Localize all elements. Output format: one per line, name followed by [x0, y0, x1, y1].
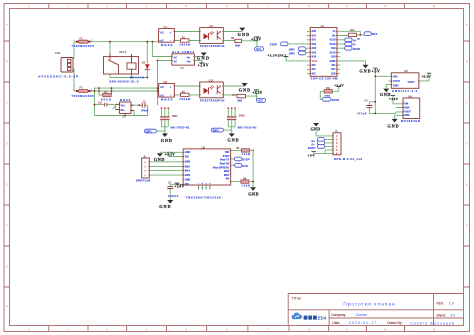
resistor R1 150k: [179, 35, 191, 46]
switch SW1: [160, 107, 190, 133]
wire D2 to U11: [174, 86, 199, 95]
svg-text:1000uF: 1000uF: [168, 195, 179, 198]
net flag RTX at U5: [231, 164, 248, 168]
svg-text:RTX: RTX: [242, 164, 248, 168]
svg-text:D: D: [6, 142, 8, 146]
svg-text:VIN: VIN: [393, 75, 397, 79]
svg-text:Сигма: Сигма: [356, 313, 368, 317]
wire bottom rail: [94, 105, 147, 115]
svg-text:VIO: VIO: [185, 155, 189, 158]
svg-text:VOUT: VOUT: [408, 80, 416, 84]
switch SW2: [227, 107, 257, 133]
svg-text:GND: GND: [330, 59, 336, 63]
svg-text:B: B: [6, 60, 8, 64]
net flag DIP1 at SW1: [144, 127, 165, 134]
svg-text:F1: F1: [80, 36, 84, 40]
svg-text:2: 2: [91, 40, 92, 42]
svg-text:MK-707/D-N1: MK-707/D-N1: [171, 126, 191, 130]
fuse F1: [71, 36, 94, 48]
svg-text:D2: D2: [164, 80, 168, 84]
svg-text:150kΩ: 150kΩ: [179, 43, 191, 47]
resistor R4: [233, 94, 246, 102]
net flag DIP2 at SW2: [211, 128, 231, 132]
svg-text:DIP1: DIP1: [146, 129, 152, 133]
svg-text:DIR: DIR: [225, 151, 230, 154]
svg-text:VOUT: VOUT: [393, 79, 401, 83]
svg-text:B: B: [466, 60, 468, 64]
svg-text:+3.3V: +3.3V: [334, 83, 344, 87]
power module U7 HLK-20M24: [172, 50, 195, 70]
svg-text:MS2: MS2: [224, 170, 230, 173]
border ticks bottom: [49, 326, 405, 332]
svg-text:PC817X2NIP1B: PC817X2NIP1B: [200, 98, 225, 102]
svg-text:M2A: M2A: [185, 166, 190, 169]
relay RLY1: [104, 50, 139, 83]
capacitor C11: [98, 101, 107, 106]
svg-text:Company:: Company:: [331, 313, 346, 317]
net flag D- at J1: [312, 141, 328, 146]
svg-text:T500MA250V: T500MA250V: [71, 94, 94, 98]
power +5V rail: [372, 68, 380, 113]
net flag D- at A1: [340, 42, 356, 46]
power +3.3V at U11: [223, 90, 262, 100]
svg-text:STEP: STEP: [242, 157, 249, 161]
svg-text:C11: C11: [98, 101, 103, 104]
svg-text:10kΩ: 10kΩ: [242, 153, 251, 156]
svg-text:+Vo: +Vo: [186, 60, 191, 63]
svg-text:IO19: IO19: [330, 42, 336, 46]
power +3.3V at U4: [223, 37, 261, 49]
svg-text:GND: GND: [185, 178, 191, 181]
net flag AC1: [255, 47, 264, 51]
svg-text:U11: U11: [209, 78, 214, 82]
svg-text:D−: D−: [312, 142, 316, 146]
stepper driver U5 TMC2209: [183, 145, 231, 199]
border ticks left: [4, 41, 10, 287]
wire R7 taps: [99, 88, 112, 95]
svg-text:s: s: [209, 183, 210, 185]
svg-text:TMC2209/TMC2226: TMC2209/TMC2226: [186, 196, 221, 200]
svg-text:NC: NC: [312, 72, 316, 76]
svg-text:VOUT: VOUT: [404, 112, 411, 114]
junction dots left cluster: [94, 41, 159, 106]
svg-text:IO5: IO5: [312, 55, 317, 59]
resistor R3: [231, 37, 242, 47]
ground GND at U6: [387, 115, 398, 128]
svg-text:CN1: CN1: [55, 51, 61, 55]
resistor R11 boot pullup: [320, 83, 344, 99]
svg-text:GND: GND: [393, 83, 399, 87]
net flag STEP at A1: [270, 42, 307, 47]
svg-text:GND: GND: [239, 87, 251, 92]
svg-text:1: 1: [74, 89, 75, 91]
connector J2 HDR-F-2.54: [136, 155, 151, 182]
svg-text:SW1: SW1: [172, 114, 179, 118]
power +5V at J1: [307, 150, 328, 158]
svg-text:GND: GND: [404, 115, 409, 117]
optocoupler U4 PC817X2NIP1B: [200, 24, 225, 48]
svg-text:1/1: 1/1: [450, 314, 455, 318]
svg-text:ESP-C3-12F-4M: ESP-C3-12F-4M: [311, 76, 338, 80]
svg-text:1N4148: 1N4148: [130, 76, 145, 80]
wire D5 to C2: [131, 104, 148, 106]
svg-text:A: A: [466, 23, 468, 27]
bridge rectifier D2 MB6S: [159, 80, 175, 102]
svg-text:GND: GND: [197, 56, 209, 61]
svg-text:5kΩ: 5kΩ: [235, 44, 240, 47]
svg-text:GND: GND: [248, 192, 258, 197]
svg-text:D−: D−: [353, 43, 357, 47]
power +24V at U5 VM: [174, 183, 184, 189]
resistor R6: [231, 147, 253, 187]
svg-text:VM: VM: [185, 183, 189, 186]
svg-text:SRD-05VDC-SL-C: SRD-05VDC-SL-C: [109, 79, 138, 83]
svg-text:+5V: +5V: [307, 153, 315, 157]
net flag BOOT at A1: [340, 46, 361, 50]
svg-text:+5V: +5V: [372, 70, 380, 74]
svg-text:STEP: STEP: [270, 43, 277, 47]
svg-text:AC−: AC−: [121, 109, 126, 112]
power +24V at U7: [194, 61, 208, 68]
diode D3 1N4148: [130, 60, 150, 79]
svg-text:10kΩ: 10kΩ: [242, 184, 251, 187]
svg-text:EDA: EDA: [318, 316, 327, 321]
ground GND at U4: [223, 28, 249, 37]
svg-text:+3.3V: +3.3V: [165, 152, 176, 156]
svg-text:AC2: AC2: [258, 100, 263, 103]
svg-text:AC: AC: [160, 31, 164, 34]
svg-text:1.0: 1.0: [449, 301, 454, 305]
svg-text:Real TX: Real TX: [220, 159, 230, 162]
regulator U3 AMS1117-3.3: [375, 69, 419, 93]
svg-text:IO0: IO0: [312, 29, 317, 33]
svg-text:U3: U3: [404, 69, 408, 73]
svg-text:DIP2: DIP2: [213, 128, 219, 132]
svg-text:D: D: [466, 142, 468, 146]
svg-text:GND: GND: [161, 138, 172, 143]
svg-text:+24V: +24V: [174, 185, 184, 189]
fuse F2: [71, 86, 94, 99]
svg-text:M1B: M1B: [185, 174, 190, 177]
resistor R8: [231, 178, 254, 188]
svg-text:+3.3V: +3.3V: [252, 91, 262, 95]
svg-text:GND: GND: [311, 127, 321, 131]
net flag AC2: [257, 98, 266, 102]
svg-text:IO3: IO3: [312, 46, 317, 50]
svg-text:+24V: +24V: [198, 63, 209, 67]
svg-text:IO6: IO6: [331, 72, 336, 76]
svg-text:+24V: +24V: [389, 97, 399, 101]
svg-text:A: A: [6, 23, 8, 27]
svg-text:AC: AC: [174, 56, 178, 59]
svg-text:PC817X2NIP1B: PC817X2NIP1B: [200, 44, 225, 48]
svg-text:DIP1: DIP1: [289, 48, 295, 52]
module A1 ESP-C3-12F-4M: [307, 24, 340, 80]
svg-text:EN: EN: [226, 178, 230, 181]
svg-text:C: C: [466, 101, 468, 105]
svg-text:IO18: IO18: [330, 38, 336, 42]
svg-text:1: 1: [198, 187, 199, 189]
svg-text:D5: D5: [122, 114, 126, 118]
svg-text:470nF: 470nF: [141, 110, 149, 113]
svg-text:EN: EN: [312, 38, 316, 42]
svg-text:IO9: IO9: [331, 46, 336, 50]
svg-text:Tx: Tx: [332, 29, 336, 33]
net flag BOOT at J1: [308, 145, 328, 150]
svg-text:RTX: RTX: [372, 32, 378, 36]
svg-text:150kΩ: 150kΩ: [179, 97, 191, 101]
svg-text:3: 3: [205, 187, 206, 189]
wire relay COM drop: [109, 42, 111, 57]
wire C1 to U4: [174, 32, 199, 41]
junction dots misc: [252, 40, 258, 151]
svg-text:T500MA250V: T500MA250V: [71, 44, 94, 48]
ground GND at J1: [311, 123, 328, 136]
svg-text:IO8: IO8: [331, 55, 336, 59]
svg-text:HDR-F-2.54: HDR-F-2.54: [136, 179, 151, 183]
ground GND at C3: [159, 200, 173, 209]
resistor R2 150k: [179, 90, 191, 101]
svg-text:A1: A1: [321, 24, 325, 28]
svg-text:0Ω: 0Ω: [357, 39, 360, 41]
net flag DIP1 at A1: [289, 47, 307, 52]
svg-text:10: 10: [384, 327, 387, 331]
capacitor C4: [357, 99, 376, 115]
ground GND at A1: [340, 61, 370, 74]
capacitor C2: [141, 100, 149, 112]
resistor R7 680: [101, 91, 111, 101]
svg-text:NC: NC: [312, 63, 316, 67]
svg-text:SW2: SW2: [239, 114, 246, 118]
wire N net vertical: [158, 61, 172, 106]
title block lines: [288, 294, 463, 326]
wire C11 leads: [94, 88, 119, 115]
svg-text:GND: GND: [185, 151, 191, 154]
wire net L after F1: [71, 42, 159, 69]
svg-text:BOOT: BOOT: [308, 146, 316, 150]
power +3.3V(NC) at A1 VCC: [267, 53, 307, 61]
ground GND at SW1: [161, 134, 172, 143]
svg-text:STEP: STEP: [223, 155, 230, 158]
svg-text:AC+: AC+: [121, 104, 126, 107]
svg-text:E: E: [6, 183, 8, 187]
converter module U6 MP1584EN: [369, 75, 420, 123]
svg-text:D3: D3: [142, 60, 146, 64]
svg-text:GND: GND: [238, 32, 250, 37]
svg-text:Sheet:: Sheet:: [436, 314, 446, 318]
power +3.3V at U3: [419, 73, 431, 81]
net flag D+ at A1: [340, 38, 356, 42]
svg-text:5kΩ: 5kΩ: [238, 99, 243, 102]
ground GND at U3: [380, 85, 391, 98]
svg-text:U7: U7: [180, 66, 184, 70]
svg-text:AMS1117-3.3: AMS1117-3.3: [392, 89, 417, 93]
bridge rectifier C1 MB6S: [159, 25, 175, 47]
svg-text:E: E: [466, 183, 468, 187]
net flag BOOT at R11: [322, 97, 339, 101]
svg-text:KF2EDGRC-5.0-3P: KF2EDGRC-5.0-3P: [39, 75, 79, 79]
wire net N after F2: [74, 69, 158, 92]
power +3.3V at U5: [165, 152, 184, 156]
svg-text:U6: U6: [408, 95, 412, 99]
svg-text:GND: GND: [387, 124, 398, 129]
svg-text:R2: R2: [182, 90, 186, 94]
svg-text:470uF: 470uF: [357, 113, 367, 116]
wire relay bottom row: [110, 74, 147, 78]
svg-text:2023-01-17: 2023-01-17: [349, 321, 376, 325]
pin endpoint dots: [119, 31, 419, 186]
connector J1 HDR-M-2.54 1x6: [328, 130, 363, 161]
svg-text:NC: NC: [332, 63, 336, 67]
svg-text:Date:: Date:: [332, 321, 340, 325]
svg-text:+3.3V: +3.3V: [251, 38, 261, 42]
svg-text:R11: R11: [326, 88, 331, 90]
connector CN1: [39, 51, 79, 78]
svg-text:Rx: Rx: [332, 33, 336, 37]
capacitor C3: [167, 181, 183, 199]
svg-text:U4: U4: [209, 24, 213, 28]
svg-text:M2B: M2B: [185, 161, 190, 164]
svg-text:DIP2: DIP2: [289, 52, 295, 56]
svg-text:AC: AC: [160, 86, 164, 89]
ground GND at U5 left: [154, 152, 183, 162]
ground GND at SW2: [228, 134, 239, 143]
no-connect slash near D5: [113, 105, 116, 109]
net flag RTX at A1: [364, 32, 377, 36]
svg-text:VCC: VCC: [312, 59, 318, 63]
svg-text:Серёга Шеховцов: Серёга Шеховцов: [410, 321, 454, 325]
svg-text:VIN: VIN: [404, 104, 408, 106]
svg-text:IO7: IO7: [331, 67, 336, 71]
svg-text:AC: AC: [174, 60, 178, 63]
svg-text:F2: F2: [80, 86, 84, 90]
svg-text:NC: NC: [312, 67, 316, 71]
net flag STEP at U5: [231, 157, 250, 161]
svg-text:IO4: IO4: [312, 50, 317, 54]
svg-text:RLY1: RLY1: [120, 50, 127, 54]
svg-text:GND: GND: [404, 108, 409, 110]
svg-text:Прототип клапан: Прототип клапан: [343, 301, 395, 307]
svg-text:MS1: MS1: [224, 174, 230, 177]
svg-text:Drawn By:: Drawn By:: [387, 321, 402, 325]
svg-text:GND: GND: [154, 157, 165, 162]
wire to U7 AC1: [152, 42, 171, 57]
svg-text:IO1: IO1: [312, 33, 317, 37]
svg-text:GND: GND: [228, 138, 239, 143]
svg-text:R1: R1: [182, 35, 186, 39]
svg-text:TITLE:: TITLE:: [292, 296, 302, 300]
ground GND at R6 R8: [248, 187, 258, 197]
svg-text:GND: GND: [359, 69, 370, 74]
border ticks top: [49, 4, 405, 9]
svg-text:MP1584EN: MP1584EN: [401, 119, 420, 123]
svg-text:Real RX: Real RX: [220, 163, 230, 166]
svg-text:2: 2: [202, 187, 203, 189]
power +24V at U6: [389, 95, 399, 103]
svg-text:BOOT: BOOT: [353, 47, 361, 51]
svg-text:10: 10: [384, 4, 387, 8]
svg-text:R10: R10: [350, 29, 355, 32]
svg-text:MK-707/D-N1: MK-707/D-N1: [238, 126, 258, 130]
svg-text:2: 2: [91, 89, 92, 91]
svg-text:H: H: [6, 304, 8, 308]
svg-text:+3.3V: +3.3V: [421, 74, 431, 78]
svg-text:D+: D+: [353, 38, 357, 42]
svg-text:BOOT: BOOT: [332, 98, 340, 102]
ground GND at U11: [223, 83, 250, 92]
border ticks right: [464, 41, 470, 287]
svg-text:IO2: IO2: [312, 42, 317, 46]
svg-text:11: 11: [433, 327, 436, 331]
svg-text:+3.3V(NC): +3.3V(NC): [267, 53, 286, 57]
wire J2 to U5 motor pins: [149, 162, 183, 175]
EasyEDA logo: [292, 313, 327, 321]
svg-text:C: C: [6, 101, 8, 105]
svg-text:HDR-M-2.54_1x6: HDR-M-2.54_1x6: [334, 157, 362, 161]
net flag DIP2 at A1: [289, 51, 307, 56]
svg-text:Real SPREAD: Real SPREAD: [213, 166, 230, 169]
svg-text:GND: GND: [159, 204, 170, 209]
wire D3 branch: [146, 42, 148, 78]
svg-text:G: G: [6, 265, 8, 269]
bridge rectifier D5 MB6S: [116, 98, 134, 119]
resistor R10: [340, 29, 364, 40]
svg-text:AC1: AC1: [256, 48, 261, 51]
net flag D+ at J1: [312, 138, 328, 143]
optocoupler U11 PC817X2NIP1B: [200, 78, 225, 102]
svg-text:REV:: REV:: [436, 301, 444, 305]
svg-text:HLK-20M24: HLK-20M24: [172, 50, 194, 54]
ground GND at U7: [194, 53, 209, 61]
svg-text:-Vo: -Vo: [186, 56, 190, 59]
wire aux N row: [94, 87, 157, 89]
svg-text:11: 11: [433, 4, 436, 8]
svg-text:MB6S: MB6S: [120, 98, 131, 102]
svg-text:IO10: IO10: [330, 50, 336, 54]
svg-text:U5: U5: [202, 145, 206, 149]
svg-text:1: 1: [74, 40, 75, 42]
svg-text:M1A: M1A: [185, 169, 190, 172]
svg-text:C1: C1: [164, 25, 168, 29]
svg-text:D+: D+: [312, 139, 316, 143]
